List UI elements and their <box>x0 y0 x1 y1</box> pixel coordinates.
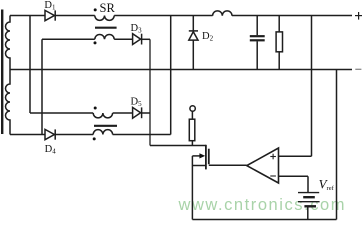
wire: resistor to drain rail <box>191 141 193 146</box>
wire: D4 to SR2 bottom winding <box>55 134 93 136</box>
transistor Q1 source connection <box>192 165 205 167</box>
wire: top rail (inductor to + terminal) <box>232 15 352 17</box>
wire: source down to bottom rail <box>191 156 193 220</box>
diode D3 <box>133 34 141 45</box>
control resistor <box>189 119 195 141</box>
diode D1 <box>45 10 54 20</box>
wire: + input to sense line <box>279 155 312 157</box>
SR2 bottom winding <box>93 130 112 135</box>
wire: bottom rail <box>192 219 336 221</box>
SR2 top winding <box>93 113 112 118</box>
SR1 top winding <box>95 16 114 21</box>
wire: - input to Vref <box>279 175 309 177</box>
transistor Q1 gate bar <box>208 149 210 165</box>
SR2 core bar <box>94 125 117 127</box>
wire: SR1 control branch horizontal <box>42 38 95 40</box>
wire: SR2 bottom winding to riser <box>113 134 171 136</box>
- output terminal <box>355 68 361 70</box>
svg-text:D1: D1 <box>44 0 56 11</box>
wire: D3 to vertical node <box>142 38 150 40</box>
wire: return rail <box>10 69 352 71</box>
op-amp U1 <box>247 148 279 183</box>
op-amp - marker <box>270 175 276 177</box>
SR2 dot (top) <box>94 107 97 110</box>
wire: top rail (SR1 to inductor) <box>114 15 212 17</box>
load resistor <box>278 16 280 32</box>
control input terminal <box>190 106 195 111</box>
svg-text:D4: D4 <box>45 144 57 156</box>
transformer secondary winding (center-tapped) <box>6 16 10 135</box>
SR1 core bar <box>95 27 117 29</box>
wire: SR1 winding to D3 <box>114 38 132 40</box>
svg-text:D3: D3 <box>131 23 143 35</box>
svg-text:SR: SR <box>100 1 116 15</box>
svg-text:Vref: Vref <box>319 176 335 192</box>
wire: riser to top rail <box>170 16 172 135</box>
transistor Q1 body arrow <box>192 155 200 157</box>
svg-text:D2: D2 <box>202 31 214 43</box>
wire: gate to op-amp output <box>209 164 247 166</box>
wire: bottom winding to D4 <box>10 134 45 136</box>
wire: battery to bottom rail <box>307 206 309 219</box>
svg-text:www.cntronics.com: www.cntronics.com <box>178 196 347 214</box>
wire: top rail (transformer top to D1) <box>10 15 45 17</box>
wire: top rail (D1 to SR1) <box>55 15 95 17</box>
output inductor L <box>213 11 232 16</box>
wire: output sense line (+ input) <box>311 16 313 157</box>
wire: vertical B (D3 branch tap down to D4 node) <box>41 39 43 134</box>
SR2 dot (bottom) <box>93 137 96 140</box>
transistor Q1 (MOSFET) channel bar <box>205 145 207 170</box>
output capacitor C <box>256 16 258 36</box>
battery Vref <box>298 192 319 194</box>
wire: SR2 to D5 <box>113 112 133 114</box>
svg-text:D5: D5 <box>131 97 143 109</box>
wire: vertical A (top rail tap down to D5 branch) <box>29 16 31 114</box>
diode D4 <box>45 129 54 139</box>
wire: right return drop <box>336 70 338 220</box>
transformer core <box>1 10 3 135</box>
SR1 dot (bottom) <box>94 41 97 44</box>
diode D5 <box>133 107 141 118</box>
+ output terminal <box>355 12 362 20</box>
wire: control vertical (D3/D5 junction down to drain rail) <box>149 39 151 145</box>
wire: terminal to control resistor <box>191 111 193 119</box>
wire: D5 branch horizontal <box>30 112 93 114</box>
wire: drain rail <box>150 145 206 147</box>
wire: D5 to vertical node <box>142 112 150 114</box>
saturable reactor SR1 dot (top) <box>94 8 97 11</box>
diode D2 (freewheeling, pointing up) <box>192 16 194 32</box>
op-amp + marker <box>270 154 276 160</box>
SR1 bottom winding <box>95 34 114 39</box>
